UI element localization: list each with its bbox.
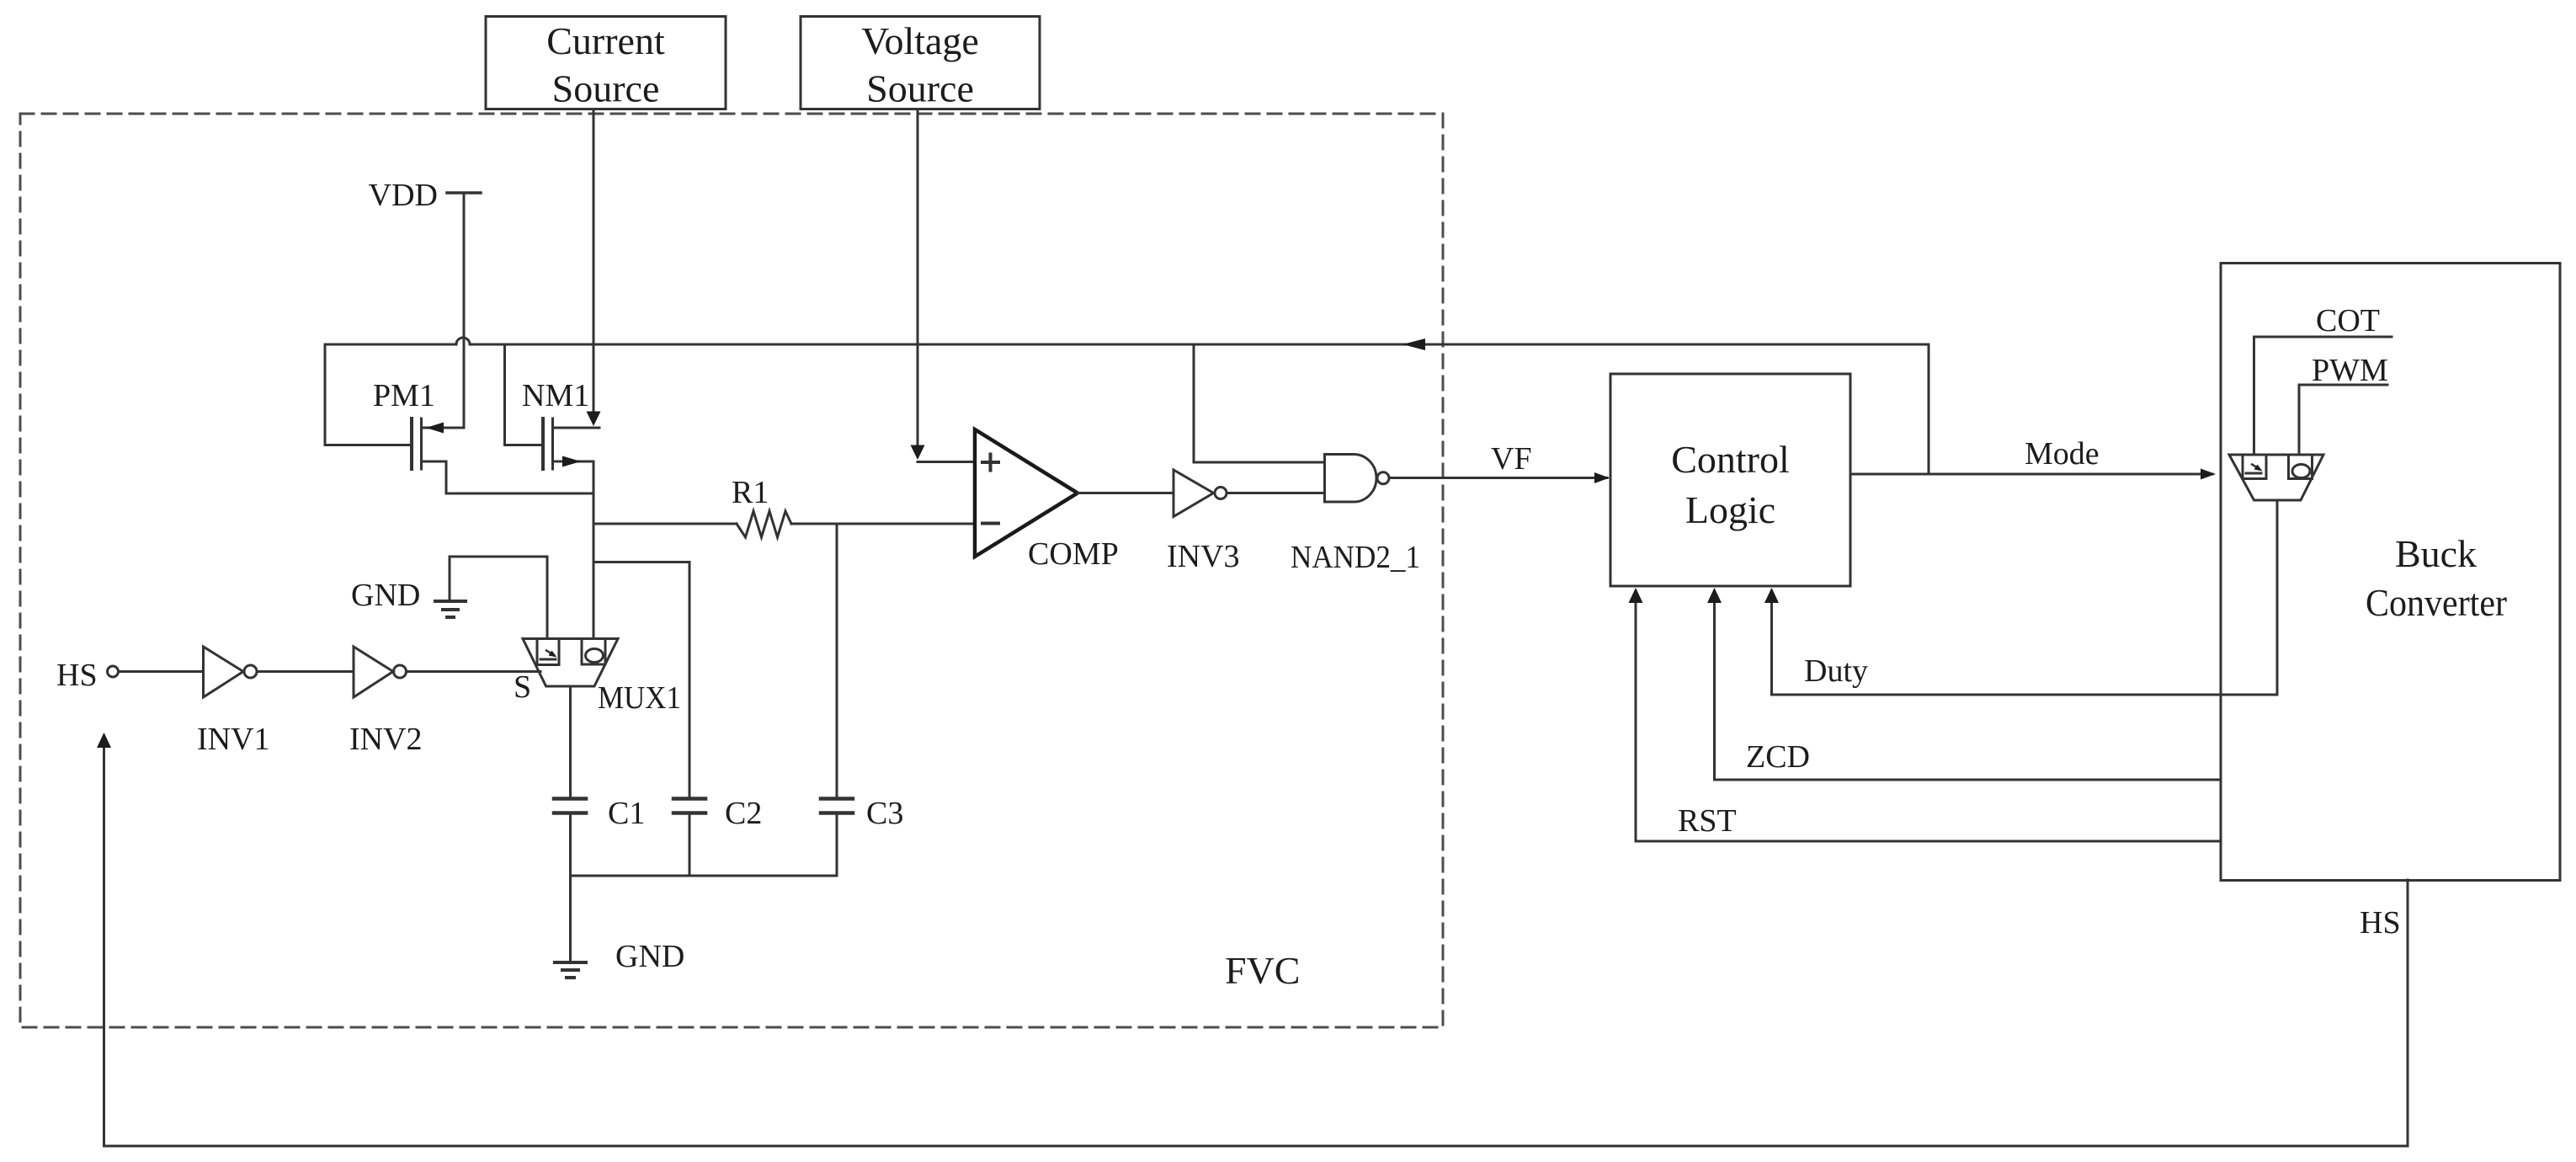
wire Duty vertical with arrow <box>1770 591 1773 695</box>
svg-text:Converter: Converter <box>2366 581 2507 624</box>
svg-text:HS: HS <box>56 658 98 693</box>
svg-text:Buck: Buck <box>2395 532 2477 575</box>
wire VF: NAND out to Control Logic <box>1389 477 1607 479</box>
wire MUX1 output to C1 <box>569 686 572 797</box>
wire C2 branch <box>593 562 689 797</box>
wire to COMP plus input <box>918 461 974 463</box>
wire COT <box>2254 337 2392 455</box>
inverter INV2 <box>354 647 393 697</box>
svg-text:INV2: INV2 <box>349 722 423 757</box>
arrowhead on line A pointing left <box>1402 338 1425 350</box>
svg-text:COT: COT <box>2316 303 2380 338</box>
ground GND near MUX1 <box>449 557 451 601</box>
mux in Buck Converter <box>2229 455 2323 500</box>
capacitor C2 <box>673 797 705 801</box>
wire current source drop <box>593 109 595 422</box>
wire ZCD horizontal <box>1715 779 2222 781</box>
wire PM1 gate loop <box>325 344 410 445</box>
svg-text:C2: C2 <box>725 796 762 831</box>
svg-text:C3: C3 <box>866 796 903 831</box>
svg-text:RST: RST <box>1678 803 1737 839</box>
transistor NM1 <box>541 418 545 469</box>
transistor PM1 <box>410 418 413 469</box>
svg-text:Source: Source <box>866 67 974 110</box>
wire INV3 to NAND <box>1227 492 1325 494</box>
VDD symbol <box>447 191 481 195</box>
wire ZCD vertical with arrow <box>1713 591 1716 780</box>
svg-text:Mode: Mode <box>2025 436 2100 472</box>
wire R1 to COMP minus <box>791 523 974 525</box>
wire RST vertical with arrow <box>1635 591 1637 841</box>
wire RST horizontal <box>1636 840 2221 843</box>
wire line A to NAND top input <box>1194 344 1325 462</box>
svg-text:Control: Control <box>1671 438 1790 481</box>
wire INV2 to MUX1 select <box>407 670 540 673</box>
wire voltage source drop <box>917 109 919 457</box>
Current Source box <box>486 17 726 109</box>
svg-text:Voltage: Voltage <box>861 19 979 62</box>
svg-text:MUX1: MUX1 <box>598 680 681 716</box>
wire main node vertical <box>593 461 595 639</box>
svg-text:COMP: COMP <box>1028 536 1119 572</box>
capacitor C1 <box>554 797 586 801</box>
resistor R1 <box>737 511 791 537</box>
inverter INV1 <box>204 647 244 697</box>
svg-text:NAND2_1: NAND2_1 <box>1291 540 1420 575</box>
svg-text:GND: GND <box>351 578 420 613</box>
node HS input terminal <box>108 666 119 677</box>
wire C3 branch <box>836 524 838 797</box>
inverter INV3 <box>1174 470 1214 517</box>
svg-text:R1: R1 <box>732 475 769 510</box>
wire GND to MUX1 left input <box>450 557 547 639</box>
svg-text:PM1: PM1 <box>373 378 435 413</box>
svg-text:PWM: PWM <box>2312 353 2388 388</box>
Buck Converter box <box>2221 264 2560 881</box>
svg-text:INV3: INV3 <box>1167 539 1240 574</box>
svg-text:NM1: NM1 <box>522 378 589 413</box>
wire PWM <box>2299 385 2387 455</box>
op-amp COMP <box>975 429 1078 557</box>
Voltage Source box <box>801 17 1040 109</box>
nand NAND2_1 <box>1325 455 1377 503</box>
wire HS feedback loop from Buck Converter <box>104 748 2408 1146</box>
wire Mode <box>1850 473 2212 476</box>
svg-text:GND: GND <box>615 939 684 974</box>
wire R1 left <box>593 523 737 525</box>
wire COMP out to INV3 <box>1078 492 1174 494</box>
wire NM1 gate drop <box>505 344 542 445</box>
svg-text:INV1: INV1 <box>197 722 270 757</box>
svg-text:C1: C1 <box>608 796 645 831</box>
Control Logic box <box>1610 374 1850 586</box>
wire gate line A <box>325 338 1929 344</box>
svg-text:ZCD: ZCD <box>1746 739 1810 775</box>
FVC dashed box <box>20 114 1443 1027</box>
arrowhead HS feedback pointing up <box>97 733 111 748</box>
wire Duty horizontal to mux output <box>1772 500 2278 695</box>
wire HS to INV1 <box>120 670 204 673</box>
svg-text:VF: VF <box>1491 441 1532 477</box>
wire bottom rail <box>571 875 838 877</box>
ground GND bottom <box>569 876 572 962</box>
svg-text:Duty: Duty <box>1804 653 1868 689</box>
mux MUX1 <box>523 639 618 687</box>
svg-text:Current: Current <box>546 19 665 62</box>
svg-text:VDD: VDD <box>369 178 438 213</box>
capacitor C3 <box>821 797 853 801</box>
svg-text:FVC: FVC <box>1225 949 1300 992</box>
wire line A to Mode junction <box>1928 344 1930 474</box>
svg-text:Logic: Logic <box>1685 488 1775 531</box>
svg-text:Source: Source <box>552 67 660 110</box>
svg-text:HS: HS <box>2360 905 2401 941</box>
wire INV1 to INV2 <box>258 670 354 673</box>
svg-text:S: S <box>514 669 531 705</box>
